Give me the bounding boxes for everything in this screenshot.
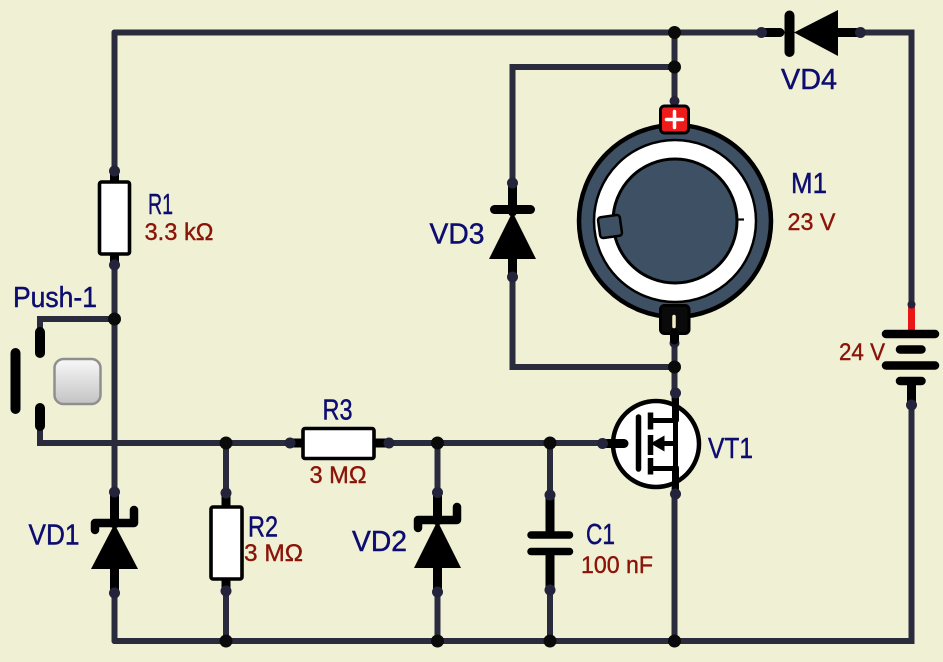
svg-text:3 MΩ: 3 MΩ — [244, 540, 303, 567]
svg-text:24 V: 24 V — [839, 339, 885, 366]
svg-text:M1: M1 — [791, 168, 827, 200]
svg-text:3.3 kΩ: 3.3 kΩ — [145, 219, 214, 246]
svg-text:Push-1: Push-1 — [13, 282, 97, 314]
svg-text:C1: C1 — [586, 519, 615, 551]
svg-text:VT1: VT1 — [708, 433, 753, 465]
svg-text:VD4: VD4 — [781, 64, 837, 96]
svg-text:100 nF: 100 nF — [581, 552, 653, 579]
svg-text:VD3: VD3 — [430, 219, 485, 251]
svg-text:R3: R3 — [323, 395, 353, 427]
svg-text:23 V: 23 V — [788, 209, 836, 236]
svg-text:VD1: VD1 — [29, 520, 80, 552]
svg-text:3 MΩ: 3 MΩ — [310, 462, 367, 489]
svg-text:VD2: VD2 — [352, 526, 407, 558]
svg-text:R1: R1 — [148, 189, 173, 221]
svg-text:R2: R2 — [248, 512, 278, 544]
